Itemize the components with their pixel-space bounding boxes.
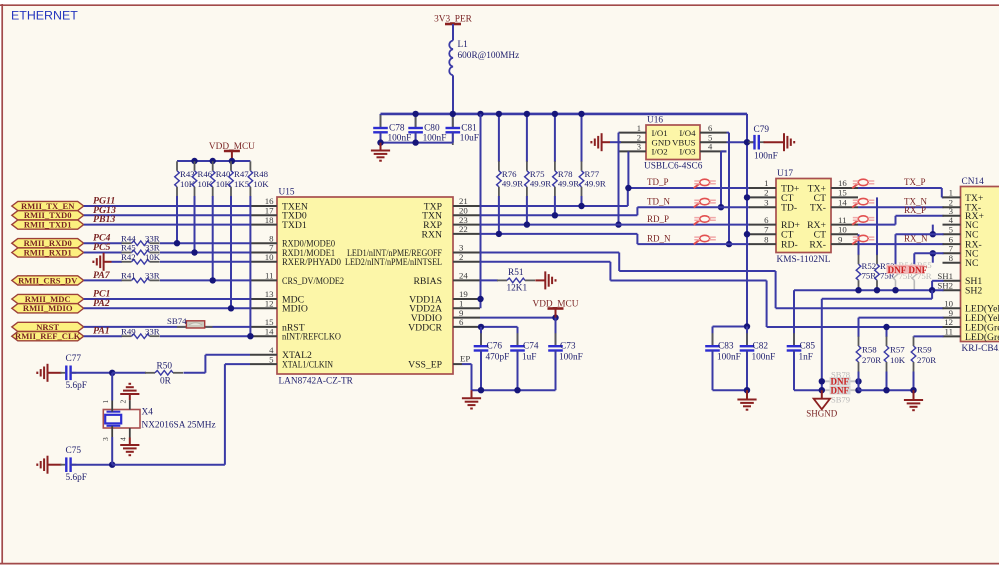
port RMII_CRS_DV — [12, 275, 84, 285]
junction — [412, 139, 418, 145]
wire U16 pin3 to TD_P — [627, 151, 629, 188]
junction — [744, 231, 750, 237]
resistor R57 10K — [884, 327, 906, 390]
wire TX_N — [858, 206, 944, 208]
wire RX_P — [858, 224, 896, 226]
wire — [160, 261, 250, 263]
wire — [84, 224, 250, 226]
pin 6 U15 — [453, 326, 480, 328]
pin 7 U15 — [250, 252, 277, 254]
pin 2 CN14 — [943, 206, 961, 208]
wire TD_P — [628, 187, 749, 189]
wire SH1 — [932, 280, 943, 282]
svg-text:I/O1: I/O1 — [652, 128, 668, 138]
svg-text:L1: L1 — [458, 40, 469, 50]
svg-text:6: 6 — [459, 317, 464, 327]
wire — [160, 335, 250, 337]
resistor R75 49.9R — [525, 114, 552, 225]
junction — [377, 139, 383, 145]
wire C85 bottom to shield node — [794, 389, 822, 391]
svg-text:RX-: RX- — [809, 240, 826, 251]
svg-text:14: 14 — [265, 326, 274, 336]
pin 2 X4 to ground — [129, 400, 131, 409]
svg-text:I/O2: I/O2 — [652, 147, 668, 157]
pin 14 U15 — [250, 335, 277, 337]
svg-text:49.9R: 49.9R — [585, 179, 606, 189]
pin 4 X4 to ground — [129, 428, 131, 438]
svg-text:C85: C85 — [800, 342, 816, 352]
svg-text:10K: 10K — [253, 179, 269, 189]
svg-text:22: 22 — [459, 224, 468, 234]
resistor R46 10K — [192, 161, 213, 252]
svg-text:PA1: PA1 — [93, 326, 110, 337]
svg-text:5.6pF: 5.6pF — [66, 381, 87, 391]
junction — [744, 323, 750, 329]
svg-text:11: 11 — [838, 215, 846, 225]
wire ground stem — [104, 261, 112, 263]
resistor R48 10K — [248, 161, 269, 336]
svg-text:R41: R41 — [121, 271, 136, 281]
svg-text:RD_N: RD_N — [647, 233, 671, 243]
wire EP to ground — [462, 363, 472, 365]
wire — [160, 279, 250, 281]
pin 23 U15 — [453, 224, 480, 226]
wire CT to 3V3 — [747, 233, 749, 235]
pin 22 U15 — [453, 233, 480, 235]
resistor R53 75R — [875, 197, 896, 290]
diff pair marker TD_P — [694, 179, 716, 188]
resistor R42 10K — [122, 260, 160, 265]
svg-text:2: 2 — [459, 252, 463, 262]
wire tie CN14 pins 7-8 — [932, 253, 934, 262]
ground at U16 pin2 — [602, 141, 610, 143]
pin EP U15 — [453, 363, 462, 365]
pin 11 U17 — [831, 224, 858, 226]
svg-text:CN14: CN14 — [962, 177, 985, 187]
port RMII_MDIO — [12, 303, 84, 313]
junction — [883, 387, 889, 393]
pin 19 U15 — [453, 298, 480, 300]
pin 10 U15 — [250, 261, 277, 263]
wire to R44 — [84, 242, 122, 244]
pin 20 U15 — [453, 214, 480, 216]
capacitor C79 100nF — [749, 125, 778, 162]
junction — [578, 111, 584, 117]
pin 11 CN14 — [943, 335, 961, 337]
pin 1 U17 — [749, 187, 776, 189]
junction — [109, 370, 115, 376]
junction U16 pin1 on RD_P — [615, 221, 621, 227]
ground below C82 — [746, 390, 748, 399]
port RMII_RXD0 — [12, 238, 84, 248]
pin 3 U15 — [453, 252, 480, 254]
svg-text:X4: X4 — [142, 407, 154, 417]
wire to SHGND — [821, 390, 823, 399]
ground left of C75 — [37, 456, 47, 474]
wire RXN — [480, 233, 637, 235]
diff pair marker — [852, 216, 874, 225]
pin 1 CN14 — [943, 196, 961, 198]
pin 1 U16 — [620, 132, 647, 134]
pin 8 U17 — [749, 243, 776, 245]
svg-text:R76: R76 — [502, 169, 517, 179]
wire XTAL2 — [204, 355, 206, 373]
svg-text:SB74: SB74 — [167, 316, 187, 326]
svg-text:TX-: TX- — [810, 203, 826, 214]
svg-text:R59: R59 — [917, 345, 932, 355]
svg-text:C75: C75 — [66, 446, 82, 456]
wire VDDIO — [480, 317, 556, 319]
svg-text:470pF: 470pF — [486, 353, 510, 363]
pin SH2 CN14 — [943, 289, 961, 291]
svg-text:6: 6 — [764, 215, 769, 225]
pin 9 CN14 — [943, 317, 961, 319]
svg-text:11: 11 — [265, 271, 273, 281]
svg-text:LED(Green): LED(Green) — [965, 332, 999, 343]
pin 12 U15 — [250, 307, 277, 309]
svg-text:PA7: PA7 — [93, 270, 111, 281]
wire TXN — [480, 214, 637, 216]
resistor R55 75R (DNF) — [912, 253, 932, 290]
pin 7 CN14 — [943, 252, 961, 254]
svg-text:TXD1: TXD1 — [282, 220, 307, 231]
svg-text:33R: 33R — [145, 326, 160, 336]
junction — [855, 378, 861, 384]
svg-text:49.9R: 49.9R — [502, 179, 523, 189]
pin 10 U17 — [831, 233, 858, 235]
wire U16 pin5 VBUS — [727, 141, 755, 143]
wire — [112, 261, 123, 263]
svg-text:TD_N: TD_N — [647, 196, 670, 206]
junction R57 on LED2 net — [883, 324, 889, 330]
junction R78 — [552, 212, 558, 218]
pin 1 X4 — [111, 373, 113, 401]
junction — [496, 111, 502, 117]
wire cap bottoms — [713, 389, 748, 391]
svg-text:NC: NC — [965, 258, 978, 269]
capacitor C77 5.6pF — [60, 366, 76, 381]
diff pair marker — [852, 235, 874, 244]
wire LED pin9 — [859, 317, 944, 319]
resistor R45 33R — [122, 250, 160, 255]
svg-text:3: 3 — [101, 437, 110, 441]
svg-text:VSS_EP: VSS_EP — [408, 360, 442, 371]
junction — [744, 194, 750, 200]
svg-text:TD-: TD- — [781, 203, 797, 214]
pin 17 U15 — [250, 214, 277, 216]
svg-text:270R: 270R — [917, 355, 936, 365]
wire — [84, 298, 250, 300]
junction — [524, 111, 530, 117]
ground below R59 — [913, 390, 915, 400]
svg-text:4: 4 — [949, 215, 954, 225]
svg-text:10: 10 — [265, 252, 274, 262]
svg-text:NX2016SA 25MHz: NX2016SA 25MHz — [142, 421, 216, 431]
svg-text:4: 4 — [118, 437, 127, 441]
svg-text:C78: C78 — [389, 124, 405, 134]
svg-text:11: 11 — [945, 327, 953, 337]
junction — [191, 158, 197, 164]
wire pull-up bus — [177, 160, 250, 162]
svg-text:RD_P: RD_P — [647, 214, 669, 224]
resistor R49 33R — [122, 334, 160, 339]
svg-text:C76: C76 — [487, 342, 503, 352]
wire — [84, 307, 250, 309]
svg-text:USBLC6-4SC6: USBLC6-4SC6 — [644, 162, 703, 172]
port NRST — [12, 322, 84, 332]
junction — [228, 305, 234, 311]
wire to R41 — [84, 279, 122, 281]
pin 4 U16 — [700, 150, 727, 152]
pin 3 U17 — [749, 206, 776, 208]
wire — [70, 372, 112, 374]
wire TXP up to TD_P — [627, 188, 629, 206]
junction — [819, 378, 825, 384]
pin 15 U17 — [831, 196, 858, 198]
junction — [412, 111, 418, 117]
svg-text:LED2/nINT/nPME/nINTSEL: LED2/nINT/nPME/nINTSEL — [345, 257, 442, 268]
svg-text:8: 8 — [764, 234, 769, 244]
wire LED2 net — [480, 261, 610, 263]
capacitor C80 100nF — [408, 114, 446, 145]
wire — [160, 252, 250, 254]
power port 3V3_PER — [434, 15, 473, 25]
svg-text:C83: C83 — [718, 342, 734, 352]
wire U16 pin4 to TD_N — [721, 150, 727, 152]
svg-text:1uF: 1uF — [522, 353, 536, 363]
pin 18 U15 — [250, 224, 277, 226]
wire NRST — [84, 326, 250, 328]
wire R55 to pin7 row — [914, 252, 943, 254]
svg-text:100nF: 100nF — [717, 353, 741, 363]
svg-text:1: 1 — [101, 400, 110, 404]
resistor R58 270R — [856, 318, 881, 391]
svg-text:10uF: 10uF — [460, 134, 479, 144]
svg-text:R42: R42 — [121, 252, 136, 262]
junction — [247, 333, 253, 339]
svg-text:100nF: 100nF — [752, 353, 776, 363]
wire VDD_MCU stem — [555, 309, 557, 318]
svg-text:R49: R49 — [121, 326, 136, 336]
svg-text:R57: R57 — [890, 345, 905, 355]
svg-text:RXN: RXN — [422, 229, 442, 240]
svg-text:EP: EP — [460, 354, 470, 364]
svg-text:R78: R78 — [558, 169, 573, 179]
pin 24 U15 — [453, 279, 480, 281]
svg-text:SHGND: SHGND — [806, 409, 838, 419]
wire — [70, 464, 112, 466]
pin 11 U15 — [250, 279, 277, 281]
svg-text:ETHERNET: ETHERNET — [11, 9, 78, 23]
chassis ground SHGND — [814, 399, 830, 410]
wire — [184, 372, 206, 374]
wire TXP — [480, 205, 628, 207]
pin 5 CN14 — [943, 233, 961, 235]
svg-text:14: 14 — [838, 197, 847, 207]
svg-text:12: 12 — [265, 299, 274, 309]
junction SH2 — [874, 287, 880, 293]
wire to R45 — [84, 252, 122, 254]
resistor R77 49.9R — [579, 114, 606, 206]
wire — [84, 214, 250, 216]
wire LED1 net — [480, 252, 619, 254]
resistor R40 10K — [210, 161, 231, 280]
resistor R50 0R — [145, 371, 183, 376]
junction — [744, 387, 750, 393]
pin 16 U17 — [831, 187, 858, 189]
svg-text:U15: U15 — [279, 188, 295, 198]
svg-text:100nF: 100nF — [754, 152, 778, 162]
wire SH2 down to shield node — [931, 290, 933, 299]
diff pair marker RD_P — [694, 216, 716, 225]
svg-text:SH2: SH2 — [965, 286, 982, 297]
wire 3V3_PER to L1 — [452, 24, 454, 41]
wire VDD_MCU stem — [231, 151, 233, 161]
svg-text:C77: C77 — [66, 354, 82, 364]
capacitor C76 470pF — [474, 327, 510, 390]
pin 2 U15 — [453, 261, 480, 263]
svg-text:600R@100MHz: 600R@100MHz — [458, 51, 520, 61]
svg-text:U16: U16 — [647, 116, 663, 126]
wire RXN down to RD_N — [636, 234, 638, 244]
wire R54 to pin5 row — [896, 233, 944, 235]
diff pair marker — [852, 198, 874, 207]
svg-text:C74: C74 — [523, 342, 539, 352]
junction — [174, 240, 180, 246]
svg-text:RMII_REF_CLK: RMII_REF_CLK — [15, 331, 81, 341]
svg-text:LAN8742A-CZ-TR: LAN8742A-CZ-TR — [279, 377, 354, 387]
svg-text:10: 10 — [838, 224, 847, 234]
svg-text:TD_P: TD_P — [647, 177, 669, 187]
wire CT to 3V3 — [747, 196, 749, 198]
junction — [109, 462, 115, 468]
svg-text:SH2: SH2 — [937, 280, 953, 290]
svg-text:5: 5 — [949, 224, 954, 234]
junction VBUS 3V3 — [744, 139, 750, 145]
pin 4 U15 — [250, 354, 277, 356]
svg-text:18: 18 — [265, 215, 274, 225]
ground left of C77 — [37, 364, 47, 382]
junction — [450, 111, 456, 117]
svg-text:CRS_DV/MODE2: CRS_DV/MODE2 — [282, 276, 344, 287]
junction R76 — [496, 231, 502, 237]
pin 8 U15 — [250, 242, 277, 244]
junction — [819, 387, 825, 393]
svg-text:C80: C80 — [424, 124, 440, 134]
svg-text:DNF DNF: DNF DNF — [888, 265, 928, 275]
svg-text:R47: R47 — [234, 169, 249, 179]
svg-text:3: 3 — [637, 142, 641, 152]
wire resistor ground rail — [859, 389, 914, 391]
svg-text:R51: R51 — [508, 268, 524, 278]
junction — [210, 277, 216, 283]
connector CN14 KRJ-CB4.2 box — [961, 177, 999, 354]
svg-text:2: 2 — [764, 188, 768, 198]
op-amp U16 USBLC6-4SC6 box — [644, 116, 703, 172]
solder bridge SB79 (DNF) — [822, 389, 859, 391]
svg-text:3V3_PER: 3V3_PER — [434, 15, 473, 25]
wire 3V3 bus — [381, 113, 748, 116]
wire to R49 — [84, 335, 122, 337]
svg-text:SB79: SB79 — [831, 395, 850, 405]
svg-text:R48: R48 — [253, 169, 268, 179]
junction SH2 — [892, 287, 898, 293]
wire — [84, 205, 250, 207]
wire TXN up to TD_N — [636, 207, 638, 215]
svg-text:R58: R58 — [862, 345, 877, 355]
capacitor C85 1nF — [787, 290, 816, 390]
svg-text:8: 8 — [949, 253, 954, 263]
svg-text:1K5: 1K5 — [234, 179, 250, 189]
pin 4 CN14 — [943, 224, 961, 226]
junction U16 pin4 on TD_N — [718, 204, 724, 210]
svg-text:1: 1 — [637, 123, 641, 133]
svg-text:KMS-1102NL: KMS-1102NL — [777, 255, 831, 265]
resistor R43 10K — [175, 161, 196, 243]
svg-text:RX_P: RX_P — [904, 205, 926, 215]
svg-text:C81: C81 — [461, 124, 477, 134]
capacitor C82 100nF — [740, 327, 776, 391]
ground at R42 — [93, 253, 103, 271]
svg-text:C82: C82 — [753, 342, 769, 352]
inductor L1 600R@100MHz — [449, 40, 519, 75]
resistor R41 33R — [122, 278, 160, 283]
capacitor C75 5.6pF — [60, 457, 76, 472]
svg-text:1: 1 — [949, 188, 953, 198]
capacitor C73 100nF — [548, 318, 583, 391]
pin 6 U17 — [749, 224, 776, 226]
wire VDDCR — [480, 326, 518, 328]
wire C83 top to 3V3 — [713, 326, 748, 328]
junction TD_P — [625, 185, 631, 191]
svg-text:MDIO: MDIO — [282, 304, 308, 315]
wire XTAL1 — [224, 364, 226, 465]
resistor R51 12K1 — [497, 278, 535, 283]
svg-text:R52: R52 — [862, 261, 877, 271]
svg-text:R50: R50 — [157, 362, 173, 372]
svg-text:TX_P: TX_P — [904, 177, 926, 187]
pin 14 U17 — [831, 206, 858, 208]
svg-text:R75: R75 — [530, 169, 545, 179]
ground below C78 — [380, 143, 382, 151]
wire — [160, 242, 250, 244]
wire ground stem — [535, 279, 545, 281]
junction — [930, 231, 936, 237]
resistor R47 1K5 — [229, 161, 250, 308]
wire TX_P — [858, 187, 942, 189]
pin SH1 CN14 — [943, 280, 961, 282]
capacitor C74 1uF — [510, 327, 539, 390]
svg-text:10K: 10K — [890, 355, 906, 365]
pin 5 U15 — [250, 363, 277, 365]
junction R77 — [578, 203, 584, 209]
svg-text:R77: R77 — [585, 169, 600, 179]
resistor R78 49.9R — [553, 114, 580, 215]
svg-text:49.9R: 49.9R — [558, 179, 579, 189]
resistor R76 49.9R — [497, 114, 524, 234]
svg-text:C73: C73 — [560, 342, 576, 352]
pin 6 CN14 — [943, 243, 961, 245]
svg-text:100nF: 100nF — [559, 353, 583, 363]
junction — [855, 387, 861, 393]
svg-text:KRJ-CB4.2: KRJ-CB4.2 — [962, 344, 999, 354]
svg-text:RMII_TXD1: RMII_TXD1 — [24, 220, 72, 230]
wire U16 pin6 to RD_N — [728, 133, 730, 245]
svg-text:7: 7 — [764, 224, 769, 234]
wire RX_N — [858, 243, 944, 245]
svg-text:RMII_CRS_DV: RMII_CRS_DV — [18, 275, 78, 285]
wire U16 pin1 to RD_P — [619, 132, 620, 134]
